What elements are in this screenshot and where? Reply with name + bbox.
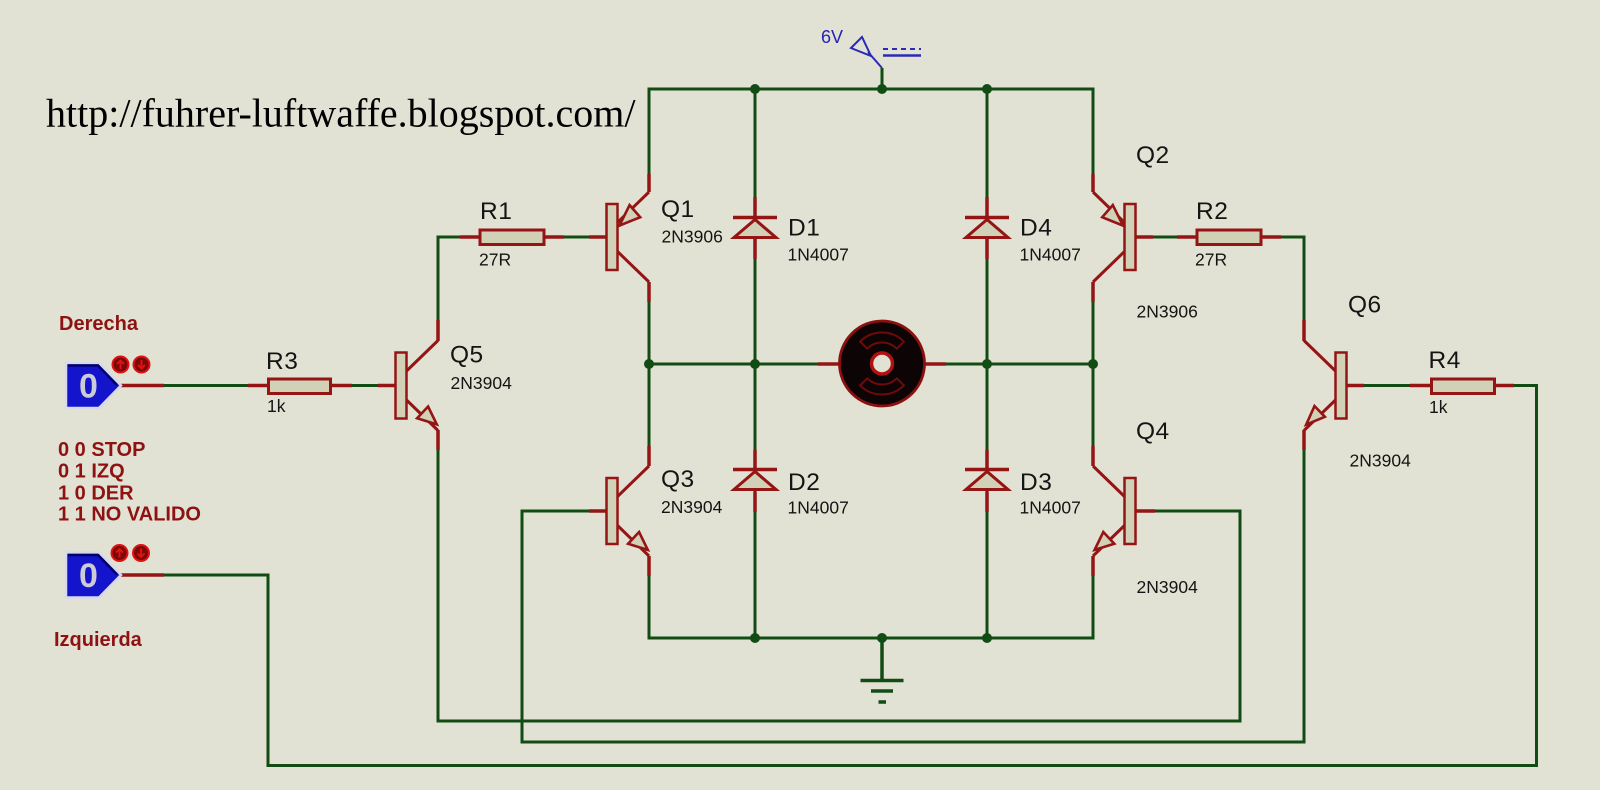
wire R1 to Q1 base <box>544 236 607 239</box>
svg-text:6V: 6V <box>821 27 843 47</box>
diode D3 <box>965 470 1009 490</box>
transistor Q3 <box>607 466 650 556</box>
svg-text:2N3906: 2N3906 <box>662 226 723 246</box>
pin D3 cathode stub <box>985 450 989 470</box>
svg-text:1k: 1k <box>1429 397 1448 417</box>
svg-text:27R: 27R <box>1195 249 1227 269</box>
logic state Derecha <box>66 363 121 408</box>
svg-text:R3: R3 <box>266 348 298 375</box>
wire top rail <box>649 89 1093 192</box>
svg-text:D1: D1 <box>788 215 820 242</box>
node top rail D4 <box>982 84 992 94</box>
transistor Q4 <box>1093 466 1136 556</box>
svg-text:0: 0 <box>79 557 98 595</box>
node bottom rail D3 <box>982 633 992 643</box>
wire Q2 collector to middle rail <box>1092 282 1095 364</box>
svg-text:Q3: Q3 <box>661 466 695 493</box>
pin Q4 base stub <box>1135 509 1155 513</box>
node bottom rail D2 <box>750 633 760 643</box>
svg-text:Q4: Q4 <box>1136 418 1170 445</box>
wire Q3 base to Q6 emitter <box>522 430 1304 742</box>
svg-text:Q1: Q1 <box>661 196 695 223</box>
button Izquierda up <box>112 545 128 561</box>
pin Q1 collector stub <box>647 282 651 302</box>
power terminal 6V <box>851 37 921 68</box>
svg-text:Q6: Q6 <box>1348 292 1382 319</box>
pin motor left stub <box>818 362 841 366</box>
svg-text:R2: R2 <box>1196 198 1228 225</box>
node bottom rail ground <box>877 633 887 643</box>
svg-text:http://fuhrer-luftwaffe.blogsp: http://fuhrer-luftwaffe.blogspot.com/ <box>46 91 636 136</box>
logic state Izquierda <box>66 553 121 598</box>
pin Q6 base stub <box>1346 384 1364 388</box>
pin Q3 emitter stub <box>647 556 651 576</box>
svg-text:R1: R1 <box>480 198 512 225</box>
node middle rail D4/D3 <box>982 359 992 369</box>
svg-text:1k: 1k <box>267 396 286 416</box>
pin Q3 collector stub <box>647 446 651 466</box>
pin R1 right stub <box>544 235 564 239</box>
pin Izquierda terminal stub <box>121 573 164 577</box>
node middle rail right <box>1088 359 1098 369</box>
svg-text:1 1 NO VALIDO: 1 1 NO VALIDO <box>58 503 201 525</box>
svg-text:2N3904: 2N3904 <box>1350 451 1412 471</box>
pin Q5 base stub <box>378 384 396 388</box>
pin Derecha terminal stub <box>121 384 164 388</box>
wire D3 column <box>986 364 989 638</box>
svg-text:0: 0 <box>79 368 98 406</box>
wire R2 to Q6 collector <box>1261 237 1304 341</box>
svg-text:27R: 27R <box>479 249 511 269</box>
pin D3 anode stub <box>985 492 989 512</box>
svg-text:D2: D2 <box>788 469 820 496</box>
transistor Q5 <box>396 341 439 431</box>
pin R3 left stub <box>248 384 268 388</box>
diode D4 <box>965 218 1009 238</box>
wire R1 left to Q5 collector <box>438 237 480 341</box>
svg-text:1N4007: 1N4007 <box>1020 244 1081 264</box>
pin R3 right stub <box>332 384 352 388</box>
svg-text:Q2: Q2 <box>1136 142 1170 169</box>
svg-text:R4: R4 <box>1429 347 1461 374</box>
wire Q3 collector to middle rail <box>648 364 651 466</box>
pin Q2 collector stub <box>1091 282 1095 302</box>
pin Q4 collector stub <box>1091 446 1095 466</box>
wire R3 to Q5 base <box>332 384 396 387</box>
pin R2 right stub <box>1261 235 1281 239</box>
pin R4 right stub <box>1494 384 1514 388</box>
pin D4 cathode stub <box>985 197 989 218</box>
pin R1 left stub <box>460 235 480 239</box>
motor M1 <box>840 321 925 406</box>
pin Q1 base stub <box>589 235 607 239</box>
transistor Q2 <box>1093 192 1136 282</box>
pin Q1 emitter stub <box>647 174 651 192</box>
button Izquierda down <box>133 545 149 561</box>
wire Q4 collector to middle rail <box>1092 364 1095 466</box>
svg-text:1N4007: 1N4007 <box>1020 498 1081 518</box>
pin Q3 base stub <box>589 509 607 513</box>
svg-text:1N4007: 1N4007 <box>788 498 849 518</box>
svg-text:1N4007: 1N4007 <box>788 244 849 264</box>
diode D2 <box>733 470 777 490</box>
svg-text:Izquierda: Izquierda <box>54 629 143 651</box>
wire D2 column <box>754 364 757 638</box>
wire Q1 collector to middle rail <box>648 282 651 364</box>
pin D2 cathode stub <box>753 450 757 470</box>
pin D1 cathode stub <box>753 197 757 218</box>
svg-text:2N3904: 2N3904 <box>1137 577 1199 597</box>
pin D4 anode stub <box>985 238 989 259</box>
node middle rail left <box>644 359 654 369</box>
wire Derecha to R3 <box>121 384 268 387</box>
resistor R3 <box>269 379 331 394</box>
svg-text:2N3904: 2N3904 <box>661 497 723 517</box>
wire Q2 base to R2 <box>1135 236 1197 239</box>
pin Q6 collector stub <box>1302 320 1306 341</box>
pin Q2 base stub <box>1135 235 1153 239</box>
pin motor right stub <box>923 362 946 366</box>
svg-text:0 1 IZQ: 0 1 IZQ <box>58 461 125 483</box>
wire D4 column <box>986 89 989 364</box>
transistor Q6 <box>1304 341 1347 431</box>
button Derecha up <box>113 357 129 373</box>
svg-text:D3: D3 <box>1020 469 1052 496</box>
node middle rail D1/D2 <box>750 359 760 369</box>
svg-text:Q5: Q5 <box>450 342 484 369</box>
svg-text:D4: D4 <box>1020 215 1052 242</box>
button Derecha down <box>134 357 150 373</box>
wire D1 column <box>754 89 757 364</box>
wire Q6 base to R4 <box>1346 384 1430 387</box>
wire middle rail right segment <box>924 363 1093 366</box>
pin Q2 emitter stub <box>1091 174 1095 192</box>
pin D1 anode stub <box>753 238 757 259</box>
pin Q6 emitter stub <box>1302 430 1306 450</box>
pin D2 anode stub <box>753 492 757 512</box>
wire Q5 emitter to Q4 base <box>438 430 1240 721</box>
svg-text:0 0 STOP: 0 0 STOP <box>58 439 145 461</box>
node top rail D1 <box>750 84 760 94</box>
pin Q4 emitter stub <box>1091 556 1095 576</box>
junction dots <box>644 84 1098 643</box>
pin R4 left stub <box>1410 384 1430 388</box>
svg-text:1 0 DER: 1 0 DER <box>58 483 134 505</box>
resistor R1 <box>480 230 544 245</box>
resistor R2 <box>1197 230 1261 245</box>
wire bottom rail <box>649 556 1093 638</box>
pin Q5 collector stub <box>436 320 440 341</box>
wire 6V supply stub <box>881 68 884 89</box>
pin R2 left stub <box>1177 235 1197 239</box>
svg-text:Derecha: Derecha <box>59 313 139 335</box>
label truth table <box>58 439 201 526</box>
wire middle rail left segment <box>649 363 840 366</box>
svg-text:2N3904: 2N3904 <box>451 373 513 393</box>
node top rail 6V <box>877 84 887 94</box>
resistor R4 <box>1432 379 1495 394</box>
ground <box>861 638 904 702</box>
pin Q5 emitter stub <box>436 430 440 450</box>
wire Izquierda to R4 right <box>121 386 1537 766</box>
diode D1 <box>733 218 777 238</box>
transistor Q1 <box>607 192 650 282</box>
svg-text:2N3906: 2N3906 <box>1137 301 1198 321</box>
